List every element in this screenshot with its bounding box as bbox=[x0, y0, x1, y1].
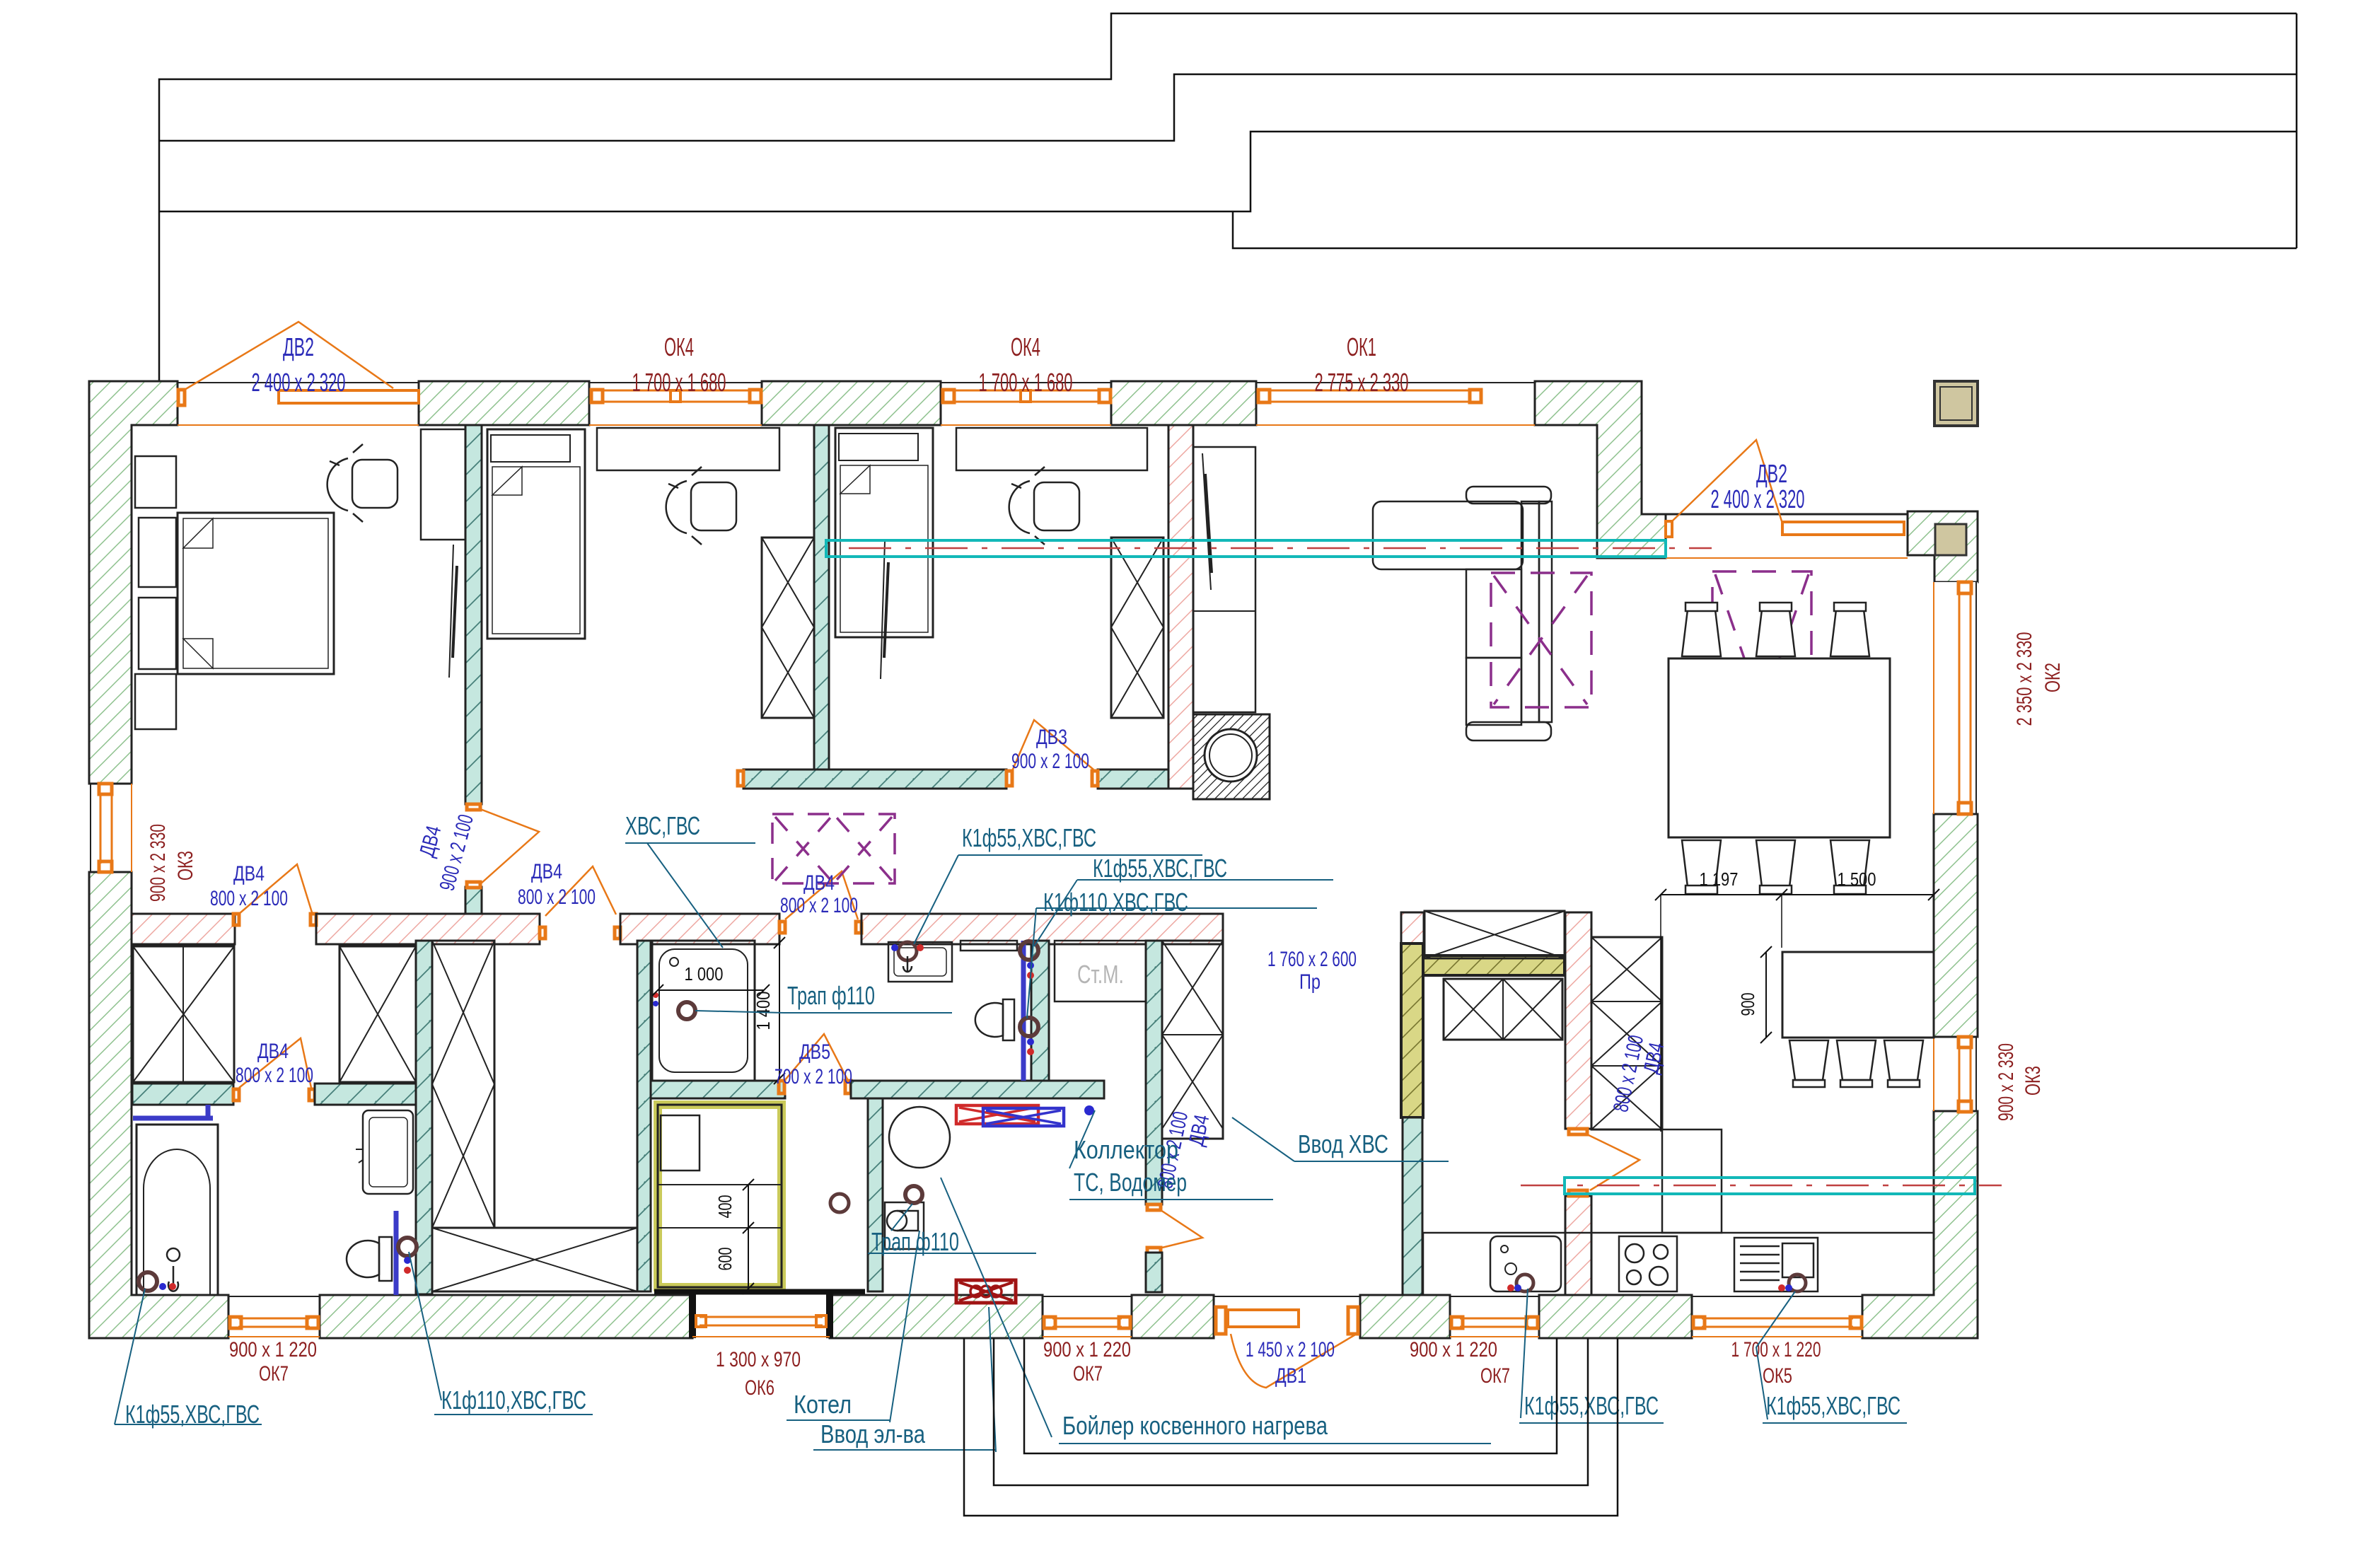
door DV2 top-right swing bbox=[1672, 440, 1782, 523]
kitchen wardrobe X column bbox=[1591, 937, 1662, 1129]
pantry X boxes bbox=[1424, 911, 1565, 958]
kitchen stove bbox=[1619, 1236, 1677, 1291]
free tan column on terrace bbox=[1934, 381, 1978, 426]
svg-text:ДВ4: ДВ4 bbox=[531, 860, 562, 883]
teal wall hall/kitchen below olive bbox=[1403, 1117, 1422, 1295]
svg-text:2 775 x 2 330: 2 775 x 2 330 bbox=[1315, 368, 1409, 397]
bathroom2 bathtub 1000x1400 bbox=[652, 941, 755, 1081]
svg-text:Коллектор: Коллектор bbox=[1074, 1135, 1178, 1164]
svg-text:600: 600 bbox=[714, 1248, 736, 1271]
boiler room circle small bbox=[830, 1194, 849, 1212]
teal wall vertical boilerroom right bbox=[868, 1098, 883, 1291]
bathroom1 tub drain bbox=[139, 1272, 176, 1291]
door DV4 divider1 swing bbox=[480, 809, 539, 884]
svg-text:ДВ4: ДВ4 bbox=[257, 1040, 289, 1063]
svg-text:400: 400 bbox=[714, 1195, 736, 1219]
window OK2 (right wall vertical) bbox=[1934, 582, 1976, 814]
bedroom2 chair bbox=[666, 467, 736, 545]
bottom wall: DV1 to OK7#3 bbox=[1360, 1295, 1450, 1338]
corridor red wall segment B2 bbox=[620, 914, 779, 944]
teal stub below divider1 bbox=[465, 887, 482, 914]
terrace edge lower bbox=[159, 132, 2297, 211]
corridor door DV4-b jambs bbox=[779, 922, 861, 933]
svg-text:1 700 x 1 220: 1 700 x 1 220 bbox=[1731, 1338, 1821, 1361]
door DV3 swing bbox=[1012, 720, 1093, 771]
toilet room towel bbox=[961, 941, 1017, 951]
svg-text:900 x 2 100: 900 x 2 100 bbox=[1011, 750, 1089, 773]
boiler room shelf lines bbox=[658, 1185, 782, 1228]
bottom nested U leader lines bbox=[964, 1338, 1618, 1516]
kitchen sink bbox=[1490, 1236, 1561, 1291]
svg-text:ОК7: ОК7 bbox=[259, 1362, 289, 1386]
dining chairs top bbox=[1682, 603, 1869, 656]
svg-text:Трап ф110: Трап ф110 bbox=[871, 1227, 959, 1256]
corridor red wall segment A bbox=[132, 914, 235, 944]
svg-text:1 500: 1 500 bbox=[1838, 869, 1876, 890]
svg-text:900 x 1 220: 900 x 1 220 bbox=[1410, 1338, 1497, 1361]
svg-text:1 700 x 1 680: 1 700 x 1 680 bbox=[979, 368, 1073, 397]
window OK6 bottom (thick jambs) bbox=[692, 1293, 830, 1338]
wide X box bottom center bbox=[432, 1228, 637, 1291]
svg-text:ОК1: ОК1 bbox=[1347, 332, 1376, 361]
bottom wall: OK7#2 to DV1 bbox=[1132, 1295, 1214, 1338]
red wall bedroom3 right bbox=[1168, 425, 1193, 789]
svg-text:900 x 2 330: 900 x 2 330 bbox=[1995, 1043, 2018, 1121]
right wall (dining/kitchen) upper bbox=[1934, 582, 1978, 1037]
collector TC red/blue bbox=[956, 1105, 1094, 1126]
terrace right vertical bbox=[2296, 13, 2298, 248]
master pillow 2 bbox=[139, 598, 176, 669]
olive wall pantry horizontal bbox=[1423, 956, 1565, 975]
svg-text:Ввод эл-ва: Ввод эл-ва bbox=[820, 1419, 926, 1448]
svg-text:ДВ5: ДВ5 bbox=[799, 1040, 830, 1064]
master dresser bbox=[421, 429, 465, 540]
svg-text:1 450 x 2 100: 1 450 x 2 100 bbox=[1246, 1338, 1335, 1361]
svg-text:Ст.М.: Ст.М. bbox=[1077, 960, 1124, 989]
svg-text:1 300 x 970: 1 300 x 970 bbox=[716, 1348, 801, 1371]
terrace edge bottom-right bbox=[1233, 211, 2297, 248]
svg-text:800 x 2 100: 800 x 2 100 bbox=[780, 894, 858, 917]
dim 1000 over tub bbox=[652, 963, 770, 996]
dim 1400 right of tub bbox=[753, 937, 785, 1084]
door DV4 jambs at divider1 bbox=[467, 804, 480, 888]
bedroom3 chair bbox=[1009, 467, 1079, 545]
teal wall toilet right bbox=[1031, 941, 1049, 1081]
closet wardrobe X right bbox=[340, 946, 416, 1082]
trap circle hall bbox=[905, 1186, 922, 1203]
door DV2 top-left: lintel lines bbox=[178, 383, 419, 425]
bathroom1 door circle bbox=[398, 1238, 417, 1274]
terrace edge left vertical bbox=[159, 13, 2297, 381]
bathroom1 bathtub bbox=[137, 1125, 218, 1295]
living TV console bbox=[1193, 447, 1255, 712]
door DV3 jambs bbox=[1006, 771, 1098, 786]
red shaft wall lower bbox=[1565, 1196, 1591, 1295]
left wall upper (corner L) bbox=[89, 381, 178, 784]
terrace edge mid bbox=[159, 74, 2297, 141]
svg-text:900: 900 bbox=[1737, 993, 1758, 1016]
master TV bbox=[449, 545, 457, 678]
teal wall vertical x588 bbox=[416, 941, 432, 1294]
window OK3 left wall bbox=[91, 784, 132, 872]
svg-text:К1ф55,ХВС,ГВС: К1ф55,ХВС,ГВС bbox=[962, 823, 1096, 852]
svg-text:ДВ3: ДВ3 bbox=[1036, 726, 1067, 749]
teal wall vertical x901 bbox=[637, 941, 651, 1291]
teal wall bedrooms bottom bbox=[743, 770, 1006, 789]
svg-text:900 x 2 330: 900 x 2 330 bbox=[146, 824, 170, 902]
bedroom2 desk bbox=[597, 428, 779, 470]
svg-text:К1ф55,ХВС,ГВС: К1ф55,ХВС,ГВС bbox=[1766, 1391, 1901, 1420]
window OK7-2 bottom bbox=[1043, 1296, 1132, 1337]
closet wardrobe X left bbox=[133, 946, 234, 1082]
living chimney bbox=[1193, 714, 1270, 799]
bathroom1 shower screen indigo bbox=[133, 1105, 213, 1118]
hall X column bbox=[1162, 941, 1223, 1139]
svg-text:ДВ2: ДВ2 bbox=[283, 332, 314, 361]
svg-text:ХВС,ГВС: ХВС,ГВС bbox=[625, 811, 700, 840]
teal wall hall St.M right vertical bbox=[1146, 941, 1162, 1204]
window OK1 bbox=[1256, 383, 1535, 425]
svg-text:700 x 2 100: 700 x 2 100 bbox=[774, 1065, 852, 1088]
shaft door swing bbox=[1587, 1134, 1640, 1190]
hall pump unit bbox=[885, 1202, 924, 1249]
svg-text:1 700 x 1 680: 1 700 x 1 680 bbox=[632, 368, 726, 397]
teal wall closet bottom right part bbox=[315, 1084, 416, 1105]
St.M niche bbox=[1055, 941, 1146, 1001]
shaft door jambs bbox=[1569, 1129, 1587, 1196]
kitchen counter bottom bbox=[1423, 1233, 1934, 1295]
corridor door DV4-e jambs bbox=[540, 927, 620, 939]
window OK5 bottom bbox=[1692, 1296, 1862, 1337]
door DV2 top-right jamb bbox=[1666, 521, 1672, 537]
dining chairs bottom bbox=[1682, 840, 1869, 894]
svg-text:Бойлер косвенного нагрева: Бойлер косвенного нагрева bbox=[1062, 1411, 1328, 1440]
door DV5 swing bbox=[784, 1034, 847, 1081]
master nightstand bottom bbox=[135, 674, 176, 729]
svg-text:Ввод ХВС: Ввод ХВС bbox=[1298, 1129, 1388, 1158]
corridor door DV4-b swing bbox=[785, 871, 858, 919]
svg-text:К1ф55,ХВС,ГВС: К1ф55,ХВС,ГВС bbox=[1524, 1391, 1659, 1420]
svg-text:2 400 x 2 320: 2 400 x 2 320 bbox=[252, 368, 346, 397]
window OK7-1 bottom bbox=[228, 1296, 320, 1337]
bedroom3 TV bbox=[881, 541, 888, 679]
master pillow 1 bbox=[139, 518, 176, 587]
hall door DV4-d swing bbox=[1161, 1210, 1202, 1248]
toilet room circles bbox=[1020, 941, 1038, 1055]
corridor door DV4-a jambs bbox=[233, 914, 316, 925]
door DV2 top-right: lintel lines bbox=[1666, 514, 1908, 558]
top wall block 4 bbox=[1111, 381, 1256, 425]
svg-text:1 197: 1 197 bbox=[1700, 869, 1739, 890]
svg-text:800 x 2 100: 800 x 2 100 bbox=[210, 887, 288, 910]
svg-text:ОК7: ОК7 bbox=[1480, 1364, 1510, 1388]
closet door DV4-c jambs bbox=[233, 1089, 315, 1100]
svg-text:ОК3: ОК3 bbox=[174, 851, 197, 881]
svg-text:800 x 2 100: 800 x 2 100 bbox=[518, 885, 596, 909]
svg-text:ОК3: ОК3 bbox=[2021, 1066, 2045, 1096]
cyan section band living bbox=[826, 540, 1712, 557]
bottom wall: OK7#3 to OK5 bbox=[1539, 1295, 1692, 1338]
svg-text:К1ф55,ХВС,ГВС: К1ф55,ХВС,ГВС bbox=[1093, 854, 1227, 883]
svg-text:Трап ф110: Трап ф110 bbox=[787, 981, 875, 1010]
bathroom1 door indigo bbox=[394, 1211, 399, 1295]
closet door DV4-c swing bbox=[239, 1038, 311, 1088]
svg-text:1 760 x 2 600: 1 760 x 2 600 bbox=[1267, 948, 1357, 971]
toilet room toilet bbox=[975, 999, 1014, 1040]
svg-text:ДВ2: ДВ2 bbox=[1756, 459, 1787, 488]
kitchen counter vertical bbox=[1662, 1129, 1722, 1233]
svg-text:800 x 2 100: 800 x 2 100 bbox=[236, 1064, 313, 1087]
plumbing labels bbox=[115, 811, 1907, 1452]
teal wall bedroom3 bottom right part bbox=[1098, 770, 1168, 789]
bottom wall: OK7#1 to OK6 bbox=[320, 1295, 692, 1338]
svg-text:1 400: 1 400 bbox=[753, 992, 774, 1030]
boiler room bottom thick edge bbox=[654, 1289, 865, 1294]
bathroom2 tub dots bbox=[653, 992, 658, 1006]
bedroom3 bed bbox=[835, 428, 933, 637]
purple dashed box bath door bbox=[772, 814, 895, 883]
svg-text:2 350 x 2 330: 2 350 x 2 330 bbox=[2013, 632, 2036, 726]
teal wall bath2 bottom right bbox=[851, 1081, 1104, 1098]
purple dashed box living bbox=[1491, 573, 1591, 707]
vvod elva red X box bbox=[956, 1280, 1016, 1303]
svg-text:К1ф110,ХВС,ГВС: К1ф110,ХВС,ГВС bbox=[1043, 888, 1188, 917]
kitchen dishwasher bbox=[1734, 1238, 1818, 1291]
bar stools bbox=[1789, 1040, 1923, 1087]
toilet room door indigo bbox=[1021, 941, 1026, 1081]
svg-text:К1ф110,ХВС,ГВС: К1ф110,ХВС,ГВС bbox=[441, 1386, 586, 1415]
svg-text:ОК4: ОК4 bbox=[1011, 332, 1040, 361]
corridor red wall segment B1 bbox=[316, 914, 540, 944]
svg-text:ОК2: ОК2 bbox=[2041, 663, 2065, 692]
toilet room sink bbox=[888, 942, 952, 982]
door DV5 jambs bbox=[779, 1081, 851, 1093]
tan column in corner block bbox=[1935, 524, 1966, 555]
svg-text:900 x 1 220: 900 x 1 220 bbox=[229, 1338, 317, 1361]
toilet room sink tap + dots bbox=[891, 942, 924, 972]
olive wall pantry vertical bbox=[1401, 943, 1423, 1117]
svg-text:ОК7: ОК7 bbox=[1073, 1362, 1103, 1386]
door DV2 top-right leaf bbox=[1782, 522, 1904, 535]
top wall block 5 + step down pillar bbox=[1535, 381, 1666, 558]
svg-text:ОК4: ОК4 bbox=[664, 332, 694, 361]
olive lining boiler room bbox=[658, 1105, 782, 1287]
window OK4-1 bbox=[589, 383, 762, 425]
bathroom1 sink bbox=[356, 1110, 413, 1194]
dining table bbox=[1669, 658, 1890, 837]
teal wall bedroom2/3 divider bbox=[814, 425, 829, 770]
svg-text:ОК6: ОК6 bbox=[745, 1376, 774, 1400]
tall X column center bbox=[432, 941, 494, 1228]
door DV1 entrance bbox=[1214, 1296, 1360, 1388]
cyan section band kitchen bbox=[1521, 1178, 2002, 1194]
top wall block 2 bbox=[419, 381, 589, 425]
red shaft wall upper bbox=[1565, 912, 1591, 1129]
svg-text:1 000: 1 000 bbox=[685, 963, 724, 985]
bathroom1 toilet bbox=[347, 1237, 392, 1281]
teal wall closet bottom (left) bbox=[132, 1084, 233, 1105]
svg-text:ДВ1: ДВ1 bbox=[1275, 1364, 1306, 1388]
door DV2 top-left swing bbox=[185, 322, 393, 390]
svg-text:2 400 x 2 320: 2 400 x 2 320 bbox=[1711, 484, 1805, 513]
kitchen island bbox=[1782, 952, 1934, 1038]
bottom wall: right corner block (L) bbox=[1862, 1111, 1978, 1338]
window OK3 right wall bbox=[1934, 1037, 1976, 1112]
door DV2 top-left leaf bbox=[279, 390, 419, 403]
master chair bbox=[327, 444, 397, 522]
corner block top-right (dining) bbox=[1908, 511, 1978, 582]
svg-text:900 x 1 220: 900 x 1 220 bbox=[1043, 1338, 1131, 1361]
svg-text:ДВ4: ДВ4 bbox=[803, 871, 835, 895]
teal stub below hall door bbox=[1146, 1253, 1162, 1292]
teal wall bedroom1/2 divider bbox=[465, 425, 482, 804]
bottom wall: OK6 to OK7#2 bbox=[830, 1295, 1043, 1338]
top wall block 3 bbox=[762, 381, 941, 425]
jamb left end of bedroom bottom wall bbox=[738, 771, 743, 786]
svg-text:ТС, Водомер: ТС, Водомер bbox=[1074, 1168, 1187, 1197]
left wall lower (corner L) bbox=[89, 872, 228, 1338]
svg-text:ОК5: ОК5 bbox=[1763, 1364, 1792, 1388]
svg-text:Пр: Пр bbox=[1299, 970, 1321, 994]
svg-text:Котел: Котел bbox=[794, 1390, 852, 1419]
teal wall bath2 bottom bbox=[651, 1081, 785, 1098]
corridor door DV4-a swing bbox=[239, 864, 312, 914]
trap circle bathroom2 bbox=[678, 1002, 695, 1019]
bedroom3 wardrobe X bbox=[1111, 538, 1164, 718]
window OK7-3 bottom bbox=[1450, 1296, 1539, 1337]
boiler room dim 400/600 bbox=[714, 1179, 754, 1294]
corridor door DV4-e swing bbox=[545, 866, 616, 916]
svg-text:ДВ4: ДВ4 bbox=[233, 862, 265, 885]
island dims bbox=[1655, 869, 1939, 1132]
sofa bbox=[1373, 487, 1552, 741]
master bed bbox=[178, 513, 334, 674]
bedroom2 wardrobe X bbox=[762, 538, 814, 718]
red corner block at pantry bbox=[1401, 912, 1424, 943]
bedroom2 bed bbox=[487, 429, 585, 639]
hall door DV4-d jambs bbox=[1147, 1204, 1161, 1253]
master nightstand top bbox=[135, 456, 176, 508]
purple dashed box dining bbox=[1712, 571, 1811, 710]
corridor red wall segment C bbox=[861, 914, 1223, 944]
boiler room shelf bbox=[661, 1115, 700, 1171]
window OK4-2 bbox=[941, 383, 1111, 425]
door DV2 top-left jamb bbox=[178, 390, 185, 405]
bedroom3 desk bbox=[956, 428, 1147, 470]
boiler cylinder bbox=[889, 1107, 950, 1168]
